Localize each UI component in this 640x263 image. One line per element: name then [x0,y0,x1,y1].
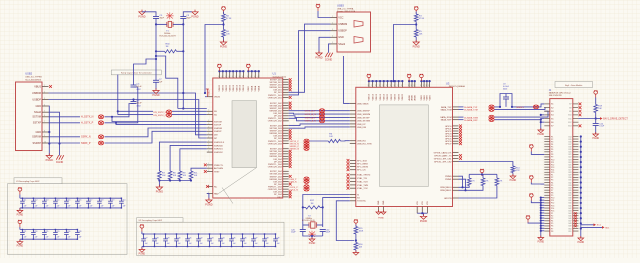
svg-text:8: 8 [411,85,412,87]
svg-text:.1uF: .1uF [56,237,59,239]
global label BAY1_DRIVE_DETECT [600,117,603,120]
svg-text:U3: U3 [446,81,450,85]
callout line short [222,188,233,204]
global label glyph DN_SSTX_N [166,110,171,114]
svg-text:TXGOSC: TXGOSC [357,201,366,203]
svg-text:47.5K: 47.5K [419,18,425,20]
svg-text:1: 1 [208,170,209,172]
junction decap2 bottom [44,239,45,240]
capacitor C11 [20,201,25,203]
ground PGND U2 decap [139,248,145,253]
junction U3 bus2 [408,80,410,82]
no-connect J1 S pin right [579,106,582,109]
svg-text:OVRCUR_D01: OVRCUR_D01 [268,97,283,99]
svg-text:12pF: 12pF [326,232,331,234]
no-connect U3 GPIO pin [459,154,462,157]
junction J1 right bus [580,161,582,163]
svg-text:C21: C21 [23,231,26,233]
svg-text:8: 8 [414,85,415,87]
svg-text:8: 8 [386,85,387,87]
wire R3 to junction [415,22,417,30]
capacitor C29 [163,239,168,241]
svg-text:C34: C34 [221,237,224,239]
no-connect USB2 VBUS [49,85,52,88]
wire R6 to U3 RLI [341,140,350,142]
resistor R9 [178,171,182,180]
junction decap bottom [66,207,67,208]
wire J1 left bus stub [541,197,545,199]
wire vss rail down [422,213,423,216]
wire decap stub b [54,203,56,208]
junction U3 bus1 [372,80,374,82]
wire FREQSEL0 [459,186,470,188]
svg-text:GL3520-OIY22: GL3520-OIY22 [273,76,287,78]
junction decap3 top [209,233,210,234]
svg-text:SSRXP: SSRXP [33,142,42,145]
wire SSRXD0 to R8 [170,145,207,171]
no-connect J1 S pin right [579,103,582,106]
svg-text:1: 1 [208,130,209,132]
svg-text:16-SATA_RXP: 16-SATA_RXP [464,119,478,122]
svg-text:SSRXD1: SSRXD1 [214,149,224,151]
wire left riser to SU pins [117,75,119,115]
svg-text:VDD5: VDD5 [429,94,431,100]
svg-text:1: 1 [208,133,209,135]
svg-text:SPC_MISO: SPC_MISO [357,163,368,165]
svg-text:VDD5: VDD5 [248,85,250,91]
global label glyph H_SSTX_P [98,121,103,125]
svg-text:0.1uF: 0.1uF [599,126,605,128]
wire decap2 stub b [43,235,45,240]
svg-text:4: 4 [222,76,223,78]
resistor R30 across crystal [165,50,177,53]
junction decap bottom [77,207,78,208]
junction U1 bus A [218,70,220,72]
wire U1 decap row1 top rail [20,197,122,199]
wire Y1 right down [182,24,184,51]
svg-text:USB_RLI_RTN: USB_RLI_RTN [357,143,372,145]
wire decap stub b [43,203,45,208]
svg-text:PWM0: PWM0 [445,176,452,178]
junction riser SU [117,110,119,112]
global label glyph DM4_N [304,180,309,184]
wire decap3 stub b [165,241,167,247]
wire SATA_TXP a [459,106,464,108]
svg-text:8: 8 [408,85,409,87]
svg-text:C33: C33 [210,237,213,239]
svg-text:VDD33: VDD33 [398,93,400,100]
svg-text:8: 8 [428,85,429,87]
power flag U2 decap [140,224,144,231]
no-connect J1 pin [574,215,576,217]
svg-text:VDD10: VDD10 [372,93,374,100]
svg-text:AVDD: AVDD [408,95,411,101]
svg-text:9: 9 [44,135,45,137]
svg-text:.1uF: .1uF [254,243,257,245]
wire decap3 stub [154,234,156,239]
junction J1 right bus [580,181,582,183]
junction J1 right bus [580,222,582,224]
wire USB2 GND down [48,106,51,156]
no-connect U1 right g2 [289,102,292,105]
junction decap2 bottom [55,239,56,240]
svg-text:SATA_TXM: SATA_TXM [441,108,452,111]
svg-text:GRSTN: GRSTN [444,198,452,200]
capacitor C6 [131,102,137,104]
capacitor C23 [53,233,58,235]
svg-text:C27: C27 [144,237,147,239]
wire J1 right bus [580,137,582,234]
junction USB2 GND [48,131,50,133]
junction J1 left bus [540,222,542,224]
global label glyph SSTX3_N [304,142,309,146]
svg-text:4: 4 [239,76,240,78]
IC U1 left pins [207,97,213,194]
svg-text:VDD10: VDD10 [376,93,378,100]
junction PWM0-FREQSEL0 [461,186,463,188]
wire C22 bottom [322,232,324,237]
ground PGND below C24 [593,132,599,137]
svg-text:SSTX_A_P: SSTX_A_P [305,109,317,112]
svg-text:PGND: PGND [309,243,316,245]
junction J1 left bus [540,207,542,209]
svg-text:.1uF: .1uF [78,237,81,239]
svg-text:8: 8 [401,85,402,87]
crystal Y1 [167,21,173,27]
global label glyph OVC4_N [304,187,309,191]
wire decap3 stub b [176,241,178,247]
svg-text:PAD: PAD [214,192,219,195]
svg-text:C31: C31 [188,237,191,239]
junction decap top [88,198,89,199]
wire J1 left bus stub [541,230,545,232]
capacitor C13 [42,201,47,203]
svg-text:USB_SSRXM: USB_SSRXM [357,114,370,116]
wire flag to J1 b [531,201,541,203]
svg-text:XO: XO [357,197,360,199]
svg-text:1: 1 [208,126,209,128]
svg-text:ECS-240-20-33-TR: ECS-240-20-33-TR [160,36,177,38]
wire U3 vss rail [417,212,427,214]
wire U1 DM to USB3 [289,24,331,92]
junction J1 right bus [580,202,582,204]
svg-text:GPIO8_CARD_KK: GPIO8_CARD_KK [434,151,452,154]
junction decap2 bottom [22,239,23,240]
capacitor C28 [152,239,157,241]
wire SSTXP to C4 [105,87,138,123]
wire U1 PAD down [207,194,209,199]
svg-text:B7: B7 [569,104,571,106]
wire decap3 stub b [264,241,266,247]
no-connect U3 SPC pin [347,162,350,165]
svg-text:DN_SSTX_N: DN_SSTX_N [154,112,167,114]
junction J1 right bus [580,151,582,153]
global label glyph MSEB1 [533,105,538,109]
wire flag to R2 [223,12,225,15]
resistor R16 [354,243,358,251]
svg-text:.1uF: .1uF [89,205,92,207]
note U2 decoupling caps box [137,222,284,255]
junction decap3 bottom [176,246,177,247]
wire decap3 stub b [242,241,244,247]
wire SU1 to U1 [172,110,207,112]
junction J1 right bus [580,227,582,229]
junction R30 left [155,50,157,52]
wire R13 top [482,174,484,178]
svg-text:3: 3 [332,29,333,31]
IC U3 right pins [453,107,459,198]
junction USB2 Shield b [58,142,60,144]
svg-text:AVDD: AVDD [411,95,414,101]
svg-text:.1uF: .1uF [232,243,235,245]
svg-text:8: 8 [420,85,421,87]
svg-text:.1uF: .1uF [276,243,279,245]
junction U1 bus B [254,70,256,72]
wire decap stub b [76,203,78,208]
junction pullup rail [481,173,483,175]
wire decap3 stub [187,234,189,239]
wire decap3 stub [231,234,233,239]
wire SSRXCLK to R7 [159,142,206,171]
no-connect J1 pin [574,220,576,222]
resistor R6 [328,139,340,142]
svg-text:VDD33: VDD33 [223,84,225,91]
wire C23 stub [505,94,507,98]
svg-text:PGND: PGND [191,15,198,18]
ground PGND U1 decap row1 [17,208,23,213]
junction J1 left bus [540,197,542,199]
wire U1 to U3 USB lane [289,116,350,118]
wire decap stub b [21,203,23,208]
wire decap3 stub [165,234,167,239]
svg-text:U2 Decoupling Caps 0402: U2 Decoupling Caps 0402 [139,220,163,222]
junction U1 bus A [235,70,237,72]
wire C7 bottom [155,82,157,89]
junction bay detect [595,117,597,119]
power flag VDD33 bus A [218,64,222,71]
capacitor C21 [20,233,25,235]
junction J1 left bus [540,212,542,214]
svg-text:XTAL_TDI: XTAL_TDI [357,177,367,180]
no-connect U3 GPIO pin [459,125,462,128]
svg-text:H_SSTX_N: H_SSTX_N [81,116,94,119]
junction RXP gnd stub [540,119,542,121]
wire SSTXP segment [49,122,81,124]
junction R17 left [302,206,304,208]
wire decap3 stub b [198,241,200,247]
junction J1 right bus [580,187,582,189]
svg-text:C12: C12 [34,200,37,202]
resistor R17 across Y2 [306,206,321,209]
junction Y1 left rail [155,23,157,25]
junction decap3 top [253,233,254,234]
svg-text:VDD5: VDD5 [427,94,429,100]
no-connect U1 right g4 [289,165,292,168]
wire J1 left bus stub [541,222,545,224]
svg-text:8: 8 [390,85,391,87]
svg-text:0402: 0402 [503,88,507,90]
no-connect U1 right g4 [289,155,292,158]
svg-text:SSTX_A_N: SSTX_A_N [305,113,317,116]
junction decap top [121,198,122,199]
wire GPIO11 to R14 [459,162,513,167]
svg-text:PGND: PGND [205,204,212,207]
wire PWM0 bend [459,176,463,187]
junction R2-R4 [222,23,224,25]
wire C5 bottom to rail [155,19,157,25]
svg-text:PGND: PGND [138,15,145,18]
power flag U3 bus2 [407,74,411,81]
no-connect U3 GPIO pin [459,142,462,145]
junction U3 bus1 [394,80,396,82]
wire decap stub [98,198,100,201]
svg-text:0.1uF: 0.1uF [137,86,143,88]
resistor R5 [414,30,418,38]
svg-text:USBDP: USBDP [338,30,347,33]
junction decap3 bottom [143,246,144,247]
no-connect J1 S pin right [579,110,582,113]
junction decap3 bottom [209,246,210,247]
svg-text:.1uF: .1uF [45,205,48,207]
global label glyph RXM [489,115,494,119]
wire SSRXM segment [49,136,81,138]
svg-text:P8: P8 [551,231,553,233]
no-connect U1 NC [206,185,209,188]
connector J1 pins [544,104,578,231]
svg-text:PGND: PGND [538,242,545,244]
global label glyph SSTX3_P [304,139,309,143]
svg-text:S8E-123456789: S8E-123456789 [549,95,562,97]
svg-text:VDD10: VDD10 [380,93,382,100]
svg-text:Keep Caps Close To Connector: Keep Caps Close To Connector [121,72,152,75]
junction J1 right bus [580,156,582,158]
wire R19 to node [595,113,597,119]
junction decap top [33,198,34,199]
ground PGND below Y2 [309,237,315,242]
junction U3 bus2 [411,80,413,82]
global label glyph SSRX_P [98,141,103,145]
svg-text:PGND: PGND [413,46,420,49]
wire decap2 stub [76,230,78,233]
capacitor C12 [31,201,36,203]
power flag above R15 [354,219,358,226]
wire SSRXP to U1 [105,131,207,143]
junction decap top [55,198,56,199]
junction R15-R16 [355,239,357,241]
junction J1 left bus [540,202,542,204]
wire R2 to junction [223,22,225,30]
wire decap3 stub b [154,241,156,247]
wire C3 top [183,12,192,17]
no-connect U3 SPC pin [347,159,350,162]
svg-text:8: 8 [426,85,427,87]
junction J1 right bus [580,146,582,148]
wire flag to J1 [531,152,544,155]
svg-text:1: 1 [208,144,209,146]
svg-text:PGND: PGND [17,214,24,216]
svg-text:.1uF: .1uF [166,243,169,245]
power flag U3 bus3 [420,74,424,81]
ground PGND below U3 vss pins [420,214,426,219]
svg-text:FREQSEL1: FREQSEL1 [440,190,452,192]
svg-text:SSTXP: SSTXP [33,122,42,125]
no-connect U3 GPIO pin [459,135,462,138]
svg-text:SPC_MOSI: SPC_MOSI [357,166,368,168]
wire R17 right [320,206,323,208]
no-connect U3 XTAL pin [347,173,350,176]
IC U3 left pins [350,103,356,200]
junction divider2 on bus1 [392,80,394,82]
wire J1 left bus stub [541,217,545,219]
junction decap3 top [220,233,221,234]
wire decap3 stub b [253,241,255,247]
wire decap3 stub [220,234,222,239]
svg-text:USBDM: USBDM [338,23,347,26]
power flag U1 decap row2 [18,220,22,227]
junction decap3 bottom [154,246,155,247]
wire R30 left [156,50,165,52]
wire flag to J1 pre [531,183,544,185]
wire SU2 segment [118,114,153,116]
svg-text:0402: 0402 [137,105,141,107]
ground PGND J1 left bus [538,236,544,241]
wire decap stub [43,198,45,201]
svg-text:C17: C17 [89,200,92,202]
junction decap3 bottom [264,246,265,247]
svg-text:4: 4 [242,76,243,78]
svg-text:U1: U1 [273,72,277,76]
svg-text:.1uF: .1uF [23,205,26,207]
ground CGND below USB2 [56,155,64,160]
svg-text:VDDA: VDDA [258,85,261,91]
callout line to thermal pad [219,168,257,194]
junction R30 right [182,50,184,52]
wire SATA_RXP a [459,119,464,121]
wire R30 right [177,50,184,52]
svg-text:OVRCUR_D02: OVRCUR_D02 [268,121,283,123]
junction decap3 bottom [275,246,276,247]
wire flag to rail [481,173,483,175]
svg-text:.1uF: .1uF [210,243,213,245]
wire decap3 stub b [231,241,233,247]
svg-text:SPC_CS: SPC_CS [357,170,366,172]
svg-text:B10: B10 [568,115,571,117]
wire FREQSEL1 [459,186,484,191]
ground PGND below USB3 [316,51,322,56]
svg-text:SSRXM: SSRXM [32,136,41,139]
svg-text:C32: C32 [199,237,202,239]
svg-text:VDD12: VDD12 [236,84,238,91]
wire decap3 stub [253,234,255,239]
wire J1 to detect node [578,118,595,120]
junction decap2 top [77,229,78,230]
wire J1 left bus stub [541,214,545,216]
junction decap2 top [22,229,23,230]
svg-text:C37: C37 [254,237,257,239]
junction J1 left bus [540,209,542,211]
junction resistor rail [190,179,192,181]
wire U1 decap row2 bottom rail [20,238,78,240]
junction J1 left bus [540,214,542,216]
svg-text:PGND: PGND [378,218,384,220]
DNP mark on Y2 [308,231,316,238]
svg-text:.1uF: .1uF [67,205,70,207]
wire J1 left bus stub [541,204,545,206]
svg-text:12pF: 12pF [291,232,296,234]
svg-text:USB_DP: USB_DP [357,124,366,126]
svg-text:PGND: PGND [46,159,53,162]
no-connect J1 S4 right [579,113,582,116]
